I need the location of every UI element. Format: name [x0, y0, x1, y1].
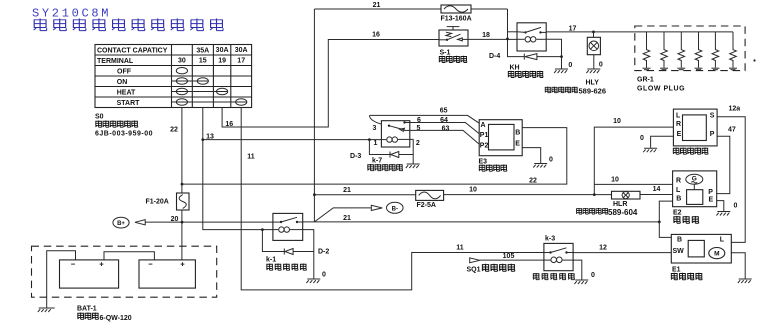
svg-text:B+: B+ — [117, 221, 125, 227]
svg-text:B: B — [515, 129, 520, 136]
svg-text:E: E — [677, 131, 682, 138]
svg-text:S0: S0 — [95, 114, 104, 121]
svg-text:ON: ON — [117, 79, 128, 86]
svg-text:TERMINAL: TERMINAL — [97, 58, 134, 65]
svg-text:22: 22 — [529, 178, 537, 185]
svg-text:GLOW PLUG: GLOW PLUG — [637, 86, 685, 93]
svg-text:20: 20 — [171, 216, 179, 223]
svg-text:START: START — [117, 100, 141, 107]
svg-text:22: 22 — [170, 127, 178, 134]
svg-text:0: 0 — [591, 272, 595, 279]
svg-text:10: 10 — [469, 187, 477, 194]
svg-text:HLR: HLR — [613, 201, 627, 208]
svg-text:B: B — [676, 196, 681, 203]
svg-text:589-604: 589-604 — [608, 208, 638, 217]
svg-text:P2: P2 — [480, 143, 489, 150]
svg-text:14: 14 — [653, 186, 661, 193]
svg-text:0: 0 — [322, 272, 326, 279]
svg-text:SY210C8M: SY210C8M — [32, 7, 111, 21]
svg-text:P: P — [708, 189, 713, 196]
svg-text:11: 11 — [456, 245, 464, 252]
svg-text:18: 18 — [482, 32, 490, 39]
svg-text:M: M — [714, 251, 719, 258]
svg-text:R: R — [676, 178, 681, 185]
svg-text:10: 10 — [611, 177, 619, 184]
svg-text:k-7: k-7 — [372, 158, 382, 165]
svg-text:E: E — [515, 140, 520, 147]
svg-text:47: 47 — [728, 127, 736, 134]
svg-text:A: A — [481, 122, 486, 129]
svg-text:E3: E3 — [479, 158, 488, 165]
svg-text:P: P — [710, 131, 715, 138]
svg-text:L: L — [676, 187, 681, 194]
svg-text:0: 0 — [734, 203, 738, 210]
svg-text:35A: 35A — [196, 47, 209, 54]
svg-text:S: S — [710, 112, 715, 119]
svg-text:0: 0 — [640, 135, 644, 142]
svg-text:KH: KH — [510, 65, 520, 72]
svg-text:6-QW-120: 6-QW-120 — [100, 315, 132, 322]
svg-text:19: 19 — [218, 58, 226, 65]
svg-text:F2-5A: F2-5A — [417, 202, 436, 209]
svg-text:L: L — [676, 112, 681, 119]
svg-text:105: 105 — [503, 253, 515, 260]
svg-text:64: 64 — [440, 117, 448, 124]
svg-text:17: 17 — [237, 58, 245, 65]
svg-text:F1-20A: F1-20A — [146, 199, 169, 206]
svg-text:3: 3 — [373, 125, 377, 132]
svg-text:HEAT: HEAT — [117, 90, 136, 97]
svg-text:S-1: S-1 — [440, 50, 451, 57]
svg-text:65: 65 — [440, 108, 448, 115]
svg-text:30A: 30A — [235, 47, 248, 54]
svg-text:16: 16 — [372, 31, 380, 38]
svg-text:D-3: D-3 — [350, 153, 361, 160]
svg-text:B: B — [677, 236, 682, 243]
svg-text:11: 11 — [247, 154, 255, 161]
svg-text:30A: 30A — [216, 47, 229, 54]
svg-text:D-4: D-4 — [489, 53, 500, 60]
svg-text:2: 2 — [416, 140, 420, 147]
svg-text:0: 0 — [549, 157, 553, 164]
svg-text:BAT-1: BAT-1 — [77, 306, 97, 313]
svg-text:10: 10 — [613, 118, 621, 125]
svg-text:1: 1 — [374, 140, 378, 147]
svg-text:B-: B- — [392, 206, 398, 212]
svg-text:5: 5 — [417, 125, 421, 132]
svg-text:E1: E1 — [672, 267, 681, 274]
svg-text:E: E — [709, 196, 714, 203]
svg-text:R: R — [676, 121, 681, 128]
svg-text:k-1: k-1 — [266, 257, 276, 264]
svg-text:17: 17 — [569, 25, 577, 32]
svg-text:OFF: OFF — [117, 69, 132, 76]
svg-text:21: 21 — [373, 2, 381, 9]
svg-text:63: 63 — [442, 125, 450, 132]
svg-text:13: 13 — [206, 134, 214, 141]
svg-text:15: 15 — [199, 58, 207, 65]
svg-text:P1: P1 — [480, 132, 489, 139]
svg-text:30: 30 — [178, 58, 186, 65]
svg-text:GR-1: GR-1 — [637, 77, 654, 84]
svg-text:F13-160A: F13-160A — [441, 16, 472, 23]
svg-text:12a: 12a — [729, 106, 741, 113]
svg-text:SW: SW — [673, 248, 685, 255]
svg-text:6: 6 — [417, 117, 421, 124]
svg-text:CONTACT CAPATICY: CONTACT CAPATICY — [97, 47, 168, 54]
svg-text:0: 0 — [568, 62, 572, 69]
svg-text:D-2: D-2 — [318, 248, 329, 255]
svg-text:6JB-003-959-00: 6JB-003-959-00 — [95, 131, 153, 138]
svg-text:E2: E2 — [673, 210, 682, 217]
svg-text:0: 0 — [599, 62, 603, 69]
svg-text:12: 12 — [599, 245, 607, 252]
svg-text:k-3: k-3 — [545, 235, 555, 242]
svg-text:L: L — [720, 236, 725, 243]
svg-text:16: 16 — [225, 121, 233, 128]
svg-text:589-626: 589-626 — [579, 86, 607, 95]
svg-text:SQ1: SQ1 — [467, 266, 481, 273]
svg-text:21: 21 — [343, 187, 351, 194]
svg-text:21: 21 — [343, 215, 351, 222]
